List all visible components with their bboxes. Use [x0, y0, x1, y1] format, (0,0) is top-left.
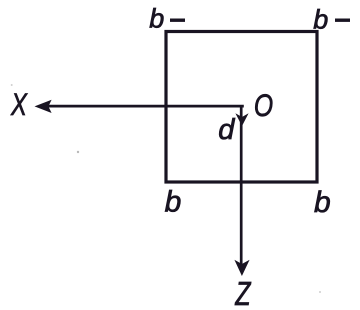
svg-text:O: O — [254, 87, 273, 123]
svg-text:d: d — [218, 114, 235, 146]
svg-text:b: b — [313, 5, 328, 35]
dash top-right — [335, 19, 350, 22]
scan speck — [319, 291, 321, 293]
Z axis line — [240, 105, 243, 264]
svg-text:b: b — [165, 186, 182, 219]
dash top-left — [170, 19, 185, 22]
X axis arrowhead — [35, 100, 52, 113]
svg-text:b: b — [314, 186, 331, 219]
square loop — [166, 32, 317, 183]
Z axis arrowhead — [234, 260, 249, 276]
svg-text:Z: Z — [234, 275, 251, 310]
svg-text:b: b — [149, 3, 164, 33]
scan speck — [11, 84, 13, 86]
d arrowhead — [235, 113, 248, 126]
X axis line — [48, 105, 244, 108]
scan speck — [77, 151, 79, 153]
svg-text:X: X — [10, 86, 27, 122]
